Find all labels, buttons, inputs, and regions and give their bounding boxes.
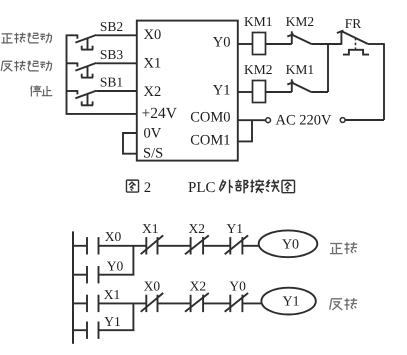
thermal relay contact FR [337, 16, 369, 54]
pin label X2 [144, 84, 162, 100]
pushbutton SB1 [67, 75, 124, 106]
svg-text:X0: X0 [144, 278, 161, 293]
pin label Y0 [213, 35, 231, 51]
pin label Y1 [213, 83, 231, 99]
svg-text:AC 220V: AC 220V [276, 113, 333, 129]
svg-text:X1: X1 [104, 287, 121, 302]
svg-text:Y0: Y0 [213, 35, 231, 51]
contact X1 NC [141, 221, 164, 255]
rung2 wire Y0 to coil [242, 302, 261, 304]
svg-text:Y1: Y1 [282, 295, 299, 310]
rung2 wire X1 to X0 [99, 302, 147, 304]
wire FR to right riser [368, 43, 384, 120]
pin label 0V [144, 125, 162, 141]
wire KM2 coil to KM1 contact [266, 91, 292, 93]
contact KM1 NC (row2) [286, 62, 315, 92]
wire riser to AC terminal right [345, 119, 384, 121]
wire bus to +24V [67, 113, 138, 115]
wire 0V to S/S loop [123, 133, 137, 154]
svg-text:SB1: SB1 [100, 75, 123, 90]
label 停止 (stop) [31, 86, 53, 97]
branch1 wire Y0 to riser [99, 274, 135, 276]
wire COM0 to AC terminal left [238, 119, 266, 121]
wire junction riser row2 to row1 [327, 43, 329, 92]
coil Y0 [259, 230, 318, 257]
rung2 wire X0 to X2 [158, 302, 191, 304]
svg-text:X2: X2 [190, 278, 207, 293]
svg-text:KM2: KM2 [244, 62, 273, 77]
contact X1 NO [87, 287, 120, 312]
pin label S/S [143, 146, 163, 162]
pin label X0 [144, 27, 162, 43]
branch2 riser [132, 303, 134, 331]
rung1 wire rail to X0 [73, 245, 87, 247]
contact X2 NC [185, 221, 209, 255]
wire KM2 contact to FR [312, 43, 342, 45]
terminal circle left [266, 118, 271, 123]
svg-text:SB2: SB2 [100, 19, 123, 34]
ladder left power rail [72, 231, 74, 343]
rung1 wire X0 to X1 [99, 245, 147, 247]
caption 图2 [126, 180, 151, 196]
wire SB2 to X0 [96, 34, 137, 36]
svg-text:X2: X2 [189, 221, 206, 236]
label 反转 [330, 298, 357, 310]
wire KM1 contact to junction [311, 91, 328, 93]
pin label +24V [142, 105, 178, 122]
rung2 wire X2 to Y0 [203, 302, 230, 304]
label 正转 [330, 242, 357, 254]
rung1 wire X1 to X2 [158, 245, 191, 247]
svg-text:X0: X0 [105, 229, 122, 244]
contact KM2 NC (row1) [286, 14, 315, 44]
rung1 wire X2 to Y1 [203, 245, 230, 247]
branch2 wire rail to Y1 [73, 329, 87, 331]
svg-text:X1: X1 [144, 56, 162, 72]
svg-text:KM1: KM1 [286, 62, 315, 77]
svg-text:KM2: KM2 [286, 14, 315, 29]
pushbutton SB2 [67, 19, 124, 50]
branch1 riser [132, 246, 134, 276]
svg-text:Y1: Y1 [227, 221, 244, 236]
svg-text:S/S: S/S [143, 146, 163, 162]
wire Y1 to KM2 coil [238, 91, 253, 93]
wire COM1 to COM0 node [238, 120, 252, 141]
wire pushbutton common bus [66, 35, 68, 115]
coil Y1 [261, 288, 315, 315]
contact X0 NO [87, 229, 121, 255]
wire KM1 coil to KM2 contact [266, 43, 292, 45]
rung1 wire Y1 to coil [242, 245, 258, 247]
wire Y0 to KM1 coil [238, 43, 253, 45]
wire SB3 to X1 [96, 62, 137, 64]
pin label COM0 [190, 110, 230, 126]
svg-text:X1: X1 [142, 221, 159, 236]
label 正转起动 (forward start) [1, 33, 51, 44]
svg-text:+24V: +24V [142, 105, 178, 122]
svg-text:SB3: SB3 [100, 47, 124, 62]
svg-text:X0: X0 [144, 27, 162, 43]
svg-text:COM0: COM0 [190, 110, 230, 126]
pushbutton SB3 [67, 47, 124, 78]
terminal circle right [340, 118, 345, 123]
svg-text:X2: X2 [144, 84, 162, 100]
pin label X1 [144, 56, 162, 72]
contact X2 NC [185, 278, 209, 312]
label 反转起动 (reverse start) [1, 61, 51, 72]
svg-text:Y1: Y1 [104, 314, 121, 329]
pin label COM1 [190, 133, 230, 149]
svg-text:2: 2 [144, 180, 151, 196]
rung2 wire rail to X1 [73, 302, 87, 304]
svg-text:Y0: Y0 [107, 258, 124, 273]
branch1 wire rail to Y0 [73, 274, 87, 276]
contact Y0 NO (seal-in) [87, 258, 123, 283]
coil KM1 [244, 14, 273, 54]
svg-text:0V: 0V [144, 125, 162, 141]
contact X0 NC [141, 278, 164, 312]
contact Y0 NC [225, 278, 248, 312]
PLC box U1 [137, 21, 238, 161]
contact Y1 NO (seal-in) [87, 314, 121, 339]
branch2 wire Y1 to riser [99, 329, 135, 331]
caption PLC外部接线图 [188, 179, 294, 196]
svg-text:KM1: KM1 [244, 14, 273, 29]
svg-text:Y0: Y0 [229, 278, 246, 293]
svg-text:COM1: COM1 [190, 133, 230, 149]
wire SB1 to X2 [96, 90, 137, 92]
svg-text:PLC: PLC [188, 180, 216, 196]
svg-text:FR: FR [345, 16, 362, 31]
contact Y1 NC [225, 221, 248, 255]
coil KM2 [244, 62, 273, 102]
label AC 220V [276, 113, 333, 129]
svg-text:Y0: Y0 [282, 237, 299, 252]
svg-text:Y1: Y1 [213, 83, 231, 99]
